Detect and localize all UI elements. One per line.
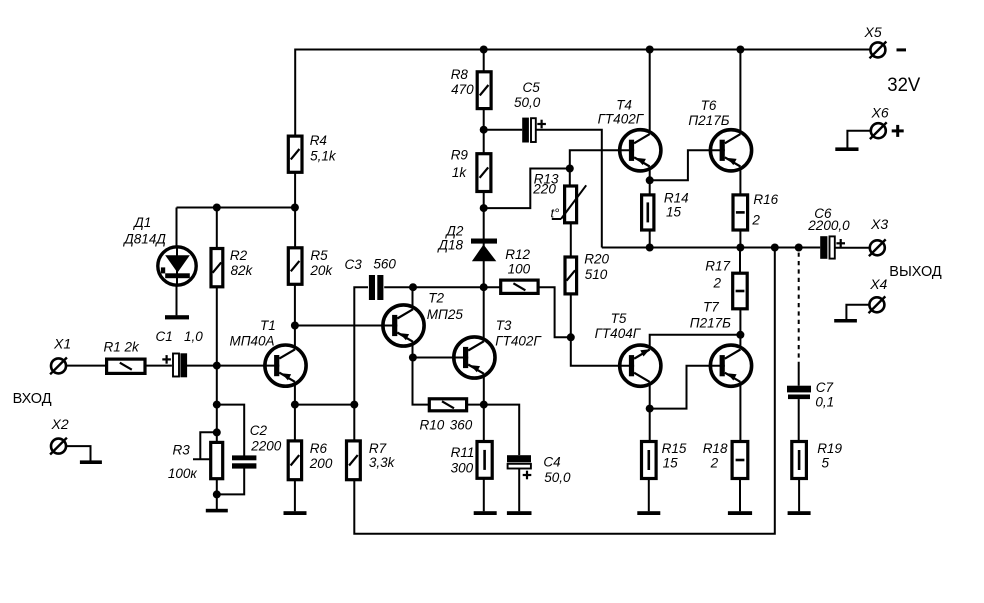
svg-text:Д814Д: Д814Д bbox=[122, 232, 166, 247]
svg-text:Т6: Т6 bbox=[701, 98, 717, 113]
wire T4 collector lead bbox=[649, 50, 651, 135]
wire R5 to T1 collector bbox=[294, 286, 296, 349]
wire C3 to R12 mid net bbox=[384, 286, 499, 288]
junction R3 wiper node bbox=[213, 428, 221, 436]
wire X6 to ground bbox=[847, 131, 870, 148]
ground X2 bbox=[80, 460, 102, 464]
svg-text:2: 2 bbox=[713, 276, 722, 291]
svg-text:32V: 32V bbox=[887, 75, 920, 96]
svg-text:5,1k: 5,1k bbox=[310, 148, 337, 163]
wire R6 bottom to ground bbox=[294, 481, 296, 511]
svg-text:С1: С1 bbox=[156, 329, 173, 344]
svg-text:100: 100 bbox=[508, 262, 531, 277]
wire R13 top lead bbox=[569, 169, 571, 185]
svg-text:Т7: Т7 bbox=[703, 300, 719, 315]
resistor R20 bbox=[565, 257, 577, 294]
junction R7 C3 node bbox=[350, 401, 358, 409]
wire T6 collector lead bbox=[739, 50, 741, 135]
resistor R1 bbox=[107, 359, 145, 373]
resistor R18 bbox=[732, 442, 748, 479]
svg-text:360: 360 bbox=[450, 417, 473, 432]
label C2 2200 bbox=[250, 423, 282, 454]
wire T3 collector lead bbox=[483, 287, 485, 341]
svg-text:20k: 20k bbox=[309, 263, 333, 278]
svg-text:Д1: Д1 bbox=[132, 215, 151, 230]
svg-text:50,0: 50,0 bbox=[544, 470, 571, 485]
ground R15 bbox=[637, 511, 660, 515]
transistor T1 МП40А bbox=[263, 345, 306, 386]
wire C7 to R19 bbox=[798, 399, 800, 440]
junction R16 R17 rail bbox=[736, 244, 744, 252]
wire R18 bottom to ground bbox=[739, 480, 741, 512]
ground X6 bbox=[835, 147, 858, 151]
wire R4 to R5 bbox=[294, 174, 296, 247]
junction C2 bottom node bbox=[213, 490, 221, 498]
transistor T5 ГТ404Г bbox=[618, 345, 661, 386]
ground X4 bbox=[834, 319, 857, 323]
wire node to C4 bbox=[484, 405, 519, 456]
label R13 220 t bbox=[532, 172, 559, 221]
ground C4 bbox=[507, 511, 532, 515]
svg-text:П217Б: П217Б bbox=[690, 316, 731, 331]
svg-text:2200,0: 2200,0 bbox=[807, 218, 850, 233]
resistor R14 bbox=[642, 195, 654, 230]
wire R8 to R9 bbox=[483, 110, 485, 153]
resistor R9 bbox=[477, 154, 491, 192]
junction C2 branch node bbox=[213, 401, 221, 409]
svg-text:П217Б: П217Б bbox=[688, 113, 729, 128]
resistor R2 bbox=[211, 249, 223, 287]
diode Д2 bbox=[471, 239, 497, 262]
svg-text:МП40А: МП40А bbox=[230, 334, 275, 349]
wire C2 top branch bbox=[217, 405, 244, 456]
junction T1 collector tap bbox=[291, 322, 299, 330]
svg-text:3,3k: 3,3k bbox=[369, 455, 396, 470]
label Х6 bbox=[871, 105, 889, 121]
wire T5 collector to T7 base bbox=[650, 366, 710, 409]
svg-text:510: 510 bbox=[585, 267, 608, 282]
label Д1 Д814Д bbox=[122, 215, 166, 247]
wire R11 bottom to ground bbox=[483, 480, 485, 512]
wire R13 node to T4 base bbox=[570, 150, 618, 168]
junction C7 branch rail bbox=[795, 244, 803, 252]
thermistor R13 bbox=[552, 185, 586, 223]
svg-text:R2: R2 bbox=[230, 248, 248, 263]
wire T2 collector lead bbox=[412, 287, 414, 309]
junction T3 emitter node bbox=[480, 401, 488, 409]
junction T1 base node bbox=[213, 362, 221, 370]
svg-text:Х2: Х2 bbox=[51, 416, 69, 432]
svg-text:Т5: Т5 bbox=[611, 311, 627, 326]
transistor T4 ГТ402Г bbox=[618, 130, 661, 171]
svg-text:470: 470 bbox=[451, 82, 474, 97]
resistor R10 bbox=[429, 399, 466, 411]
resistor R8 bbox=[477, 72, 491, 109]
label 32V bbox=[887, 75, 920, 96]
svg-text:R14: R14 bbox=[664, 191, 689, 206]
svg-text:1k: 1k bbox=[452, 165, 468, 180]
svg-text:Х3: Х3 bbox=[870, 216, 888, 232]
ground R18 bbox=[728, 511, 752, 515]
svg-text:560: 560 bbox=[373, 257, 396, 272]
terminal X4 bbox=[869, 296, 886, 313]
label minus supply bbox=[897, 48, 907, 51]
svg-text:R8: R8 bbox=[451, 67, 469, 82]
svg-text:R7: R7 bbox=[369, 441, 387, 456]
resistor R5 bbox=[288, 248, 302, 284]
capacitor C5 bbox=[522, 118, 546, 143]
terminal X1 bbox=[50, 358, 67, 375]
label R15 15 bbox=[662, 441, 687, 470]
label ВЫХОД bbox=[889, 264, 942, 280]
label C5 50,0 bbox=[514, 80, 541, 110]
resistor R16 bbox=[733, 195, 748, 230]
transistor T7 П217Б bbox=[709, 345, 752, 386]
capacitor C2 bbox=[232, 455, 256, 468]
svg-text:2: 2 bbox=[710, 455, 719, 470]
svg-text:R10: R10 bbox=[420, 417, 445, 432]
label Т3 ГТ402Г bbox=[495, 318, 542, 349]
label R8 470 bbox=[451, 67, 474, 97]
label Т6 П217Б bbox=[688, 98, 729, 128]
resistor R15 bbox=[642, 442, 657, 479]
svg-text:ВЫХОД: ВЫХОД bbox=[889, 264, 942, 280]
label R4 5,1k bbox=[310, 133, 337, 163]
wire R20 to T5 base bbox=[571, 295, 618, 366]
svg-text:R4: R4 bbox=[310, 133, 327, 148]
label ВХОД bbox=[13, 391, 52, 407]
svg-text:Д2: Д2 bbox=[444, 224, 464, 239]
wire T1 emitter lead bbox=[294, 382, 296, 405]
svg-text:Х5: Х5 bbox=[864, 24, 882, 40]
svg-text:50,0: 50,0 bbox=[514, 95, 541, 110]
junction feedback rail bbox=[771, 244, 779, 252]
label C6 2200,0 bbox=[807, 206, 850, 233]
label Х4 bbox=[869, 276, 887, 292]
label R11 300 bbox=[451, 445, 475, 476]
svg-text:100к: 100к bbox=[168, 466, 198, 481]
label Т4 ГТ402Г bbox=[598, 98, 645, 127]
svg-text:82k: 82k bbox=[231, 263, 254, 278]
label C1 1,0 bbox=[156, 329, 204, 344]
label Д2 Д18 bbox=[437, 224, 464, 253]
wire R3 wiper bracket bbox=[193, 432, 217, 459]
resistor R6 bbox=[288, 441, 301, 480]
wire T1 emitter rail bbox=[295, 404, 354, 406]
capacitor C1 bbox=[162, 353, 187, 377]
junction T6 collector rail bbox=[736, 46, 744, 54]
wire R14 bottom lead bbox=[649, 231, 651, 247]
terminal X6 bbox=[870, 122, 887, 139]
ground R3 bbox=[206, 509, 228, 513]
wire T2 emitter lead bbox=[412, 342, 414, 358]
wire T5 collector lead bbox=[649, 382, 651, 409]
resistor R11 bbox=[477, 442, 492, 479]
junction R13 top node bbox=[566, 165, 574, 173]
wire R6 top lead bbox=[294, 405, 296, 440]
capacitor C3 bbox=[369, 275, 384, 300]
junction T4 emitter node bbox=[646, 176, 654, 184]
wire R2 top lead bbox=[216, 208, 218, 248]
junction T1 emitter node bbox=[291, 401, 299, 409]
svg-text:R12: R12 bbox=[505, 247, 530, 262]
label R18 2 bbox=[703, 441, 728, 470]
label R6 200 bbox=[309, 441, 333, 471]
wire output rail bbox=[602, 247, 820, 249]
label R3 100к bbox=[168, 442, 198, 481]
resistor R7 bbox=[347, 441, 361, 480]
wire R10 right lead bbox=[468, 404, 484, 406]
wire C3 left lead bbox=[354, 287, 368, 404]
wire C2 bottom branch bbox=[217, 468, 244, 494]
label R5 20k bbox=[309, 248, 333, 278]
wire C5 right to output rail bbox=[536, 130, 602, 248]
ground R19 bbox=[788, 511, 811, 515]
svg-text:1,0: 1,0 bbox=[184, 329, 203, 344]
resistor R12 bbox=[501, 280, 538, 293]
wire R13 to R20 bbox=[570, 224, 572, 256]
svg-text:ГТ404Г: ГТ404Г bbox=[595, 326, 642, 341]
label R14 15 bbox=[664, 191, 689, 220]
label Т5 ГТ404Г bbox=[595, 311, 642, 341]
wire R8 top lead bbox=[483, 50, 485, 71]
label C7 0,1 bbox=[815, 380, 834, 409]
wire zigzag R9 node to R13 bbox=[484, 169, 570, 209]
label Х3 bbox=[870, 216, 888, 232]
label R17 2 bbox=[705, 259, 730, 291]
svg-text:R18: R18 bbox=[703, 441, 728, 456]
svg-text:15: 15 bbox=[663, 455, 679, 470]
label C3 560 bbox=[345, 257, 397, 272]
wire dashed link to C7 bbox=[798, 253, 800, 386]
wire R9 through D2 to mid net bbox=[483, 193, 485, 288]
svg-text:ВХОД: ВХОД bbox=[13, 391, 52, 407]
ground R6 bbox=[284, 511, 307, 515]
svg-text:С3: С3 bbox=[345, 257, 363, 272]
wire R7 top lead bbox=[353, 405, 355, 440]
svg-text:R6: R6 bbox=[310, 441, 328, 456]
svg-text:2200: 2200 bbox=[250, 438, 282, 453]
wire T6 emitter lead bbox=[739, 167, 741, 194]
wire top negative rail bbox=[295, 50, 870, 135]
svg-text:220: 220 bbox=[532, 182, 556, 197]
svg-text:Д18: Д18 bbox=[437, 238, 464, 253]
wire T3 emitter lead bbox=[483, 374, 485, 405]
label R19 5 bbox=[817, 441, 842, 470]
junction T4 collector rail bbox=[646, 46, 654, 54]
zener diode Д1 bbox=[158, 247, 196, 285]
resistor R19 bbox=[792, 442, 807, 479]
svg-text:5: 5 bbox=[822, 455, 830, 470]
svg-text:2: 2 bbox=[751, 212, 760, 227]
label Х2 bbox=[51, 416, 69, 432]
svg-text:R16: R16 bbox=[753, 192, 778, 207]
wire R3 bottom to ground bbox=[216, 480, 218, 509]
svg-text:С7: С7 bbox=[816, 380, 834, 395]
junction D2 T3 collector node bbox=[480, 283, 488, 291]
svg-text:ГТ402Г: ГТ402Г bbox=[598, 112, 645, 127]
wire R15 bottom to ground bbox=[648, 480, 650, 512]
resistor R3 variable bbox=[211, 442, 223, 478]
svg-text:15: 15 bbox=[666, 205, 682, 220]
wire X4 to ground bbox=[846, 305, 869, 319]
wire T4 emitter to T6 base bbox=[650, 150, 709, 180]
svg-text:t°: t° bbox=[551, 206, 560, 221]
svg-text:R11: R11 bbox=[451, 445, 475, 460]
svg-text:ГТ402Г: ГТ402Г bbox=[495, 334, 542, 349]
svg-text:Х1: Х1 bbox=[53, 336, 71, 352]
junction R20 R12 node bbox=[567, 333, 575, 341]
wire R2 bottom lead bbox=[216, 288, 218, 366]
wire R11 top lead bbox=[483, 405, 485, 441]
label Т2 МП25 bbox=[427, 290, 464, 322]
svg-text:200: 200 bbox=[309, 456, 333, 471]
wire T5 emitter to T7 collector node bbox=[650, 335, 741, 350]
svg-text:R3: R3 bbox=[173, 442, 191, 457]
svg-text:300: 300 bbox=[451, 461, 474, 476]
wire feedback loop R7 to output rail bbox=[354, 248, 775, 534]
svg-text:R9: R9 bbox=[451, 147, 469, 162]
svg-text:С4: С4 bbox=[543, 455, 560, 470]
transistor T3 ГТ402Г bbox=[452, 337, 495, 378]
wire C1 to T1 base bbox=[186, 365, 266, 367]
wire T3 base bbox=[413, 357, 453, 359]
ground Д1 bbox=[165, 315, 189, 319]
ground R11 bbox=[474, 511, 497, 515]
svg-text:С5: С5 bbox=[523, 80, 541, 95]
wire D1 node to R4-R5 column bbox=[177, 207, 295, 209]
wire X1 to R1 bbox=[66, 365, 105, 367]
resistor R4 bbox=[288, 136, 302, 172]
wire R16 bottom lead bbox=[739, 231, 741, 247]
junction R8 top rail bbox=[480, 46, 488, 54]
label C4 50,0 bbox=[543, 455, 571, 486]
wire R14 top lead bbox=[649, 180, 651, 193]
junction T5 collector node bbox=[646, 405, 654, 413]
wire base bias column bbox=[216, 366, 218, 442]
wire T7 emitter lead bbox=[739, 382, 741, 440]
svg-text:С2: С2 bbox=[250, 423, 268, 438]
label R10 360 bbox=[420, 417, 473, 432]
label R7 3,3k bbox=[369, 441, 396, 470]
svg-text:Х4: Х4 bbox=[869, 276, 887, 292]
svg-text:МП25: МП25 bbox=[427, 307, 464, 322]
capacitor C6 bbox=[820, 236, 845, 259]
capacitor C4 bbox=[507, 455, 531, 479]
wire T4 emitter lead bbox=[649, 167, 651, 181]
junction R14 output rail bbox=[646, 244, 654, 252]
wire R19 bottom to ground bbox=[798, 480, 800, 512]
svg-text:R17: R17 bbox=[705, 259, 730, 274]
junction T2 emitter node bbox=[409, 354, 417, 362]
terminal X2 bbox=[50, 438, 67, 455]
label R9 1k bbox=[451, 147, 469, 180]
junction T2 collector node bbox=[409, 283, 417, 291]
wire T2 base bbox=[295, 325, 382, 327]
resistor R17 bbox=[733, 273, 748, 309]
wire X2 to ground bbox=[66, 446, 90, 461]
wire D1 lead bbox=[176, 208, 178, 316]
wire R12 right lead bbox=[539, 287, 571, 337]
junction R9 D2 node bbox=[480, 204, 488, 212]
capacitor C7 bbox=[787, 386, 811, 399]
wire C4 bottom to ground bbox=[518, 468, 520, 511]
wire C5 left lead bbox=[484, 129, 523, 131]
junction C5 left node bbox=[480, 126, 488, 134]
svg-text:Т2: Т2 bbox=[428, 290, 444, 305]
wire R17 top lead bbox=[739, 248, 741, 273]
label R20 510 bbox=[584, 251, 609, 282]
svg-text:R1 2k: R1 2k bbox=[104, 340, 141, 355]
junction R4 R5 node bbox=[291, 204, 299, 212]
label R16 2 bbox=[751, 192, 778, 227]
label R2 82k bbox=[230, 248, 254, 278]
terminal X5 bbox=[870, 42, 887, 59]
svg-text:R19: R19 bbox=[817, 441, 842, 456]
junction T5 emitter T7 collector bbox=[736, 331, 744, 339]
transistor T2 МП25 bbox=[381, 305, 424, 346]
wire R17 to T7 collector bbox=[739, 310, 741, 350]
svg-text:Т3: Т3 bbox=[496, 318, 512, 333]
svg-text:Х6: Х6 bbox=[871, 105, 889, 121]
label Х5 bbox=[864, 24, 882, 40]
terminal X3 bbox=[869, 239, 886, 256]
label plus supply bbox=[892, 125, 904, 137]
svg-text:0,1: 0,1 bbox=[815, 395, 834, 410]
svg-text:R5: R5 bbox=[310, 248, 328, 263]
junction D1 R2 node bbox=[213, 204, 221, 212]
label Т7 П217Б bbox=[690, 300, 731, 331]
wire R15 top lead bbox=[649, 409, 651, 441]
transistor T6 П217Б bbox=[709, 130, 752, 171]
label Т1 МП40А bbox=[230, 318, 276, 349]
svg-text:Т1: Т1 bbox=[260, 318, 276, 333]
wire R1 to C1 bbox=[146, 365, 172, 367]
label R1 2k bbox=[104, 340, 141, 355]
wire T2 emitter to R10 bbox=[413, 358, 429, 405]
svg-text:R15: R15 bbox=[662, 441, 687, 456]
svg-text:R20: R20 bbox=[584, 251, 609, 266]
label Х1 bbox=[53, 336, 71, 352]
label R12 100 bbox=[505, 247, 530, 277]
wire C6 to X3 bbox=[835, 247, 870, 249]
svg-text:Т4: Т4 bbox=[616, 98, 632, 113]
